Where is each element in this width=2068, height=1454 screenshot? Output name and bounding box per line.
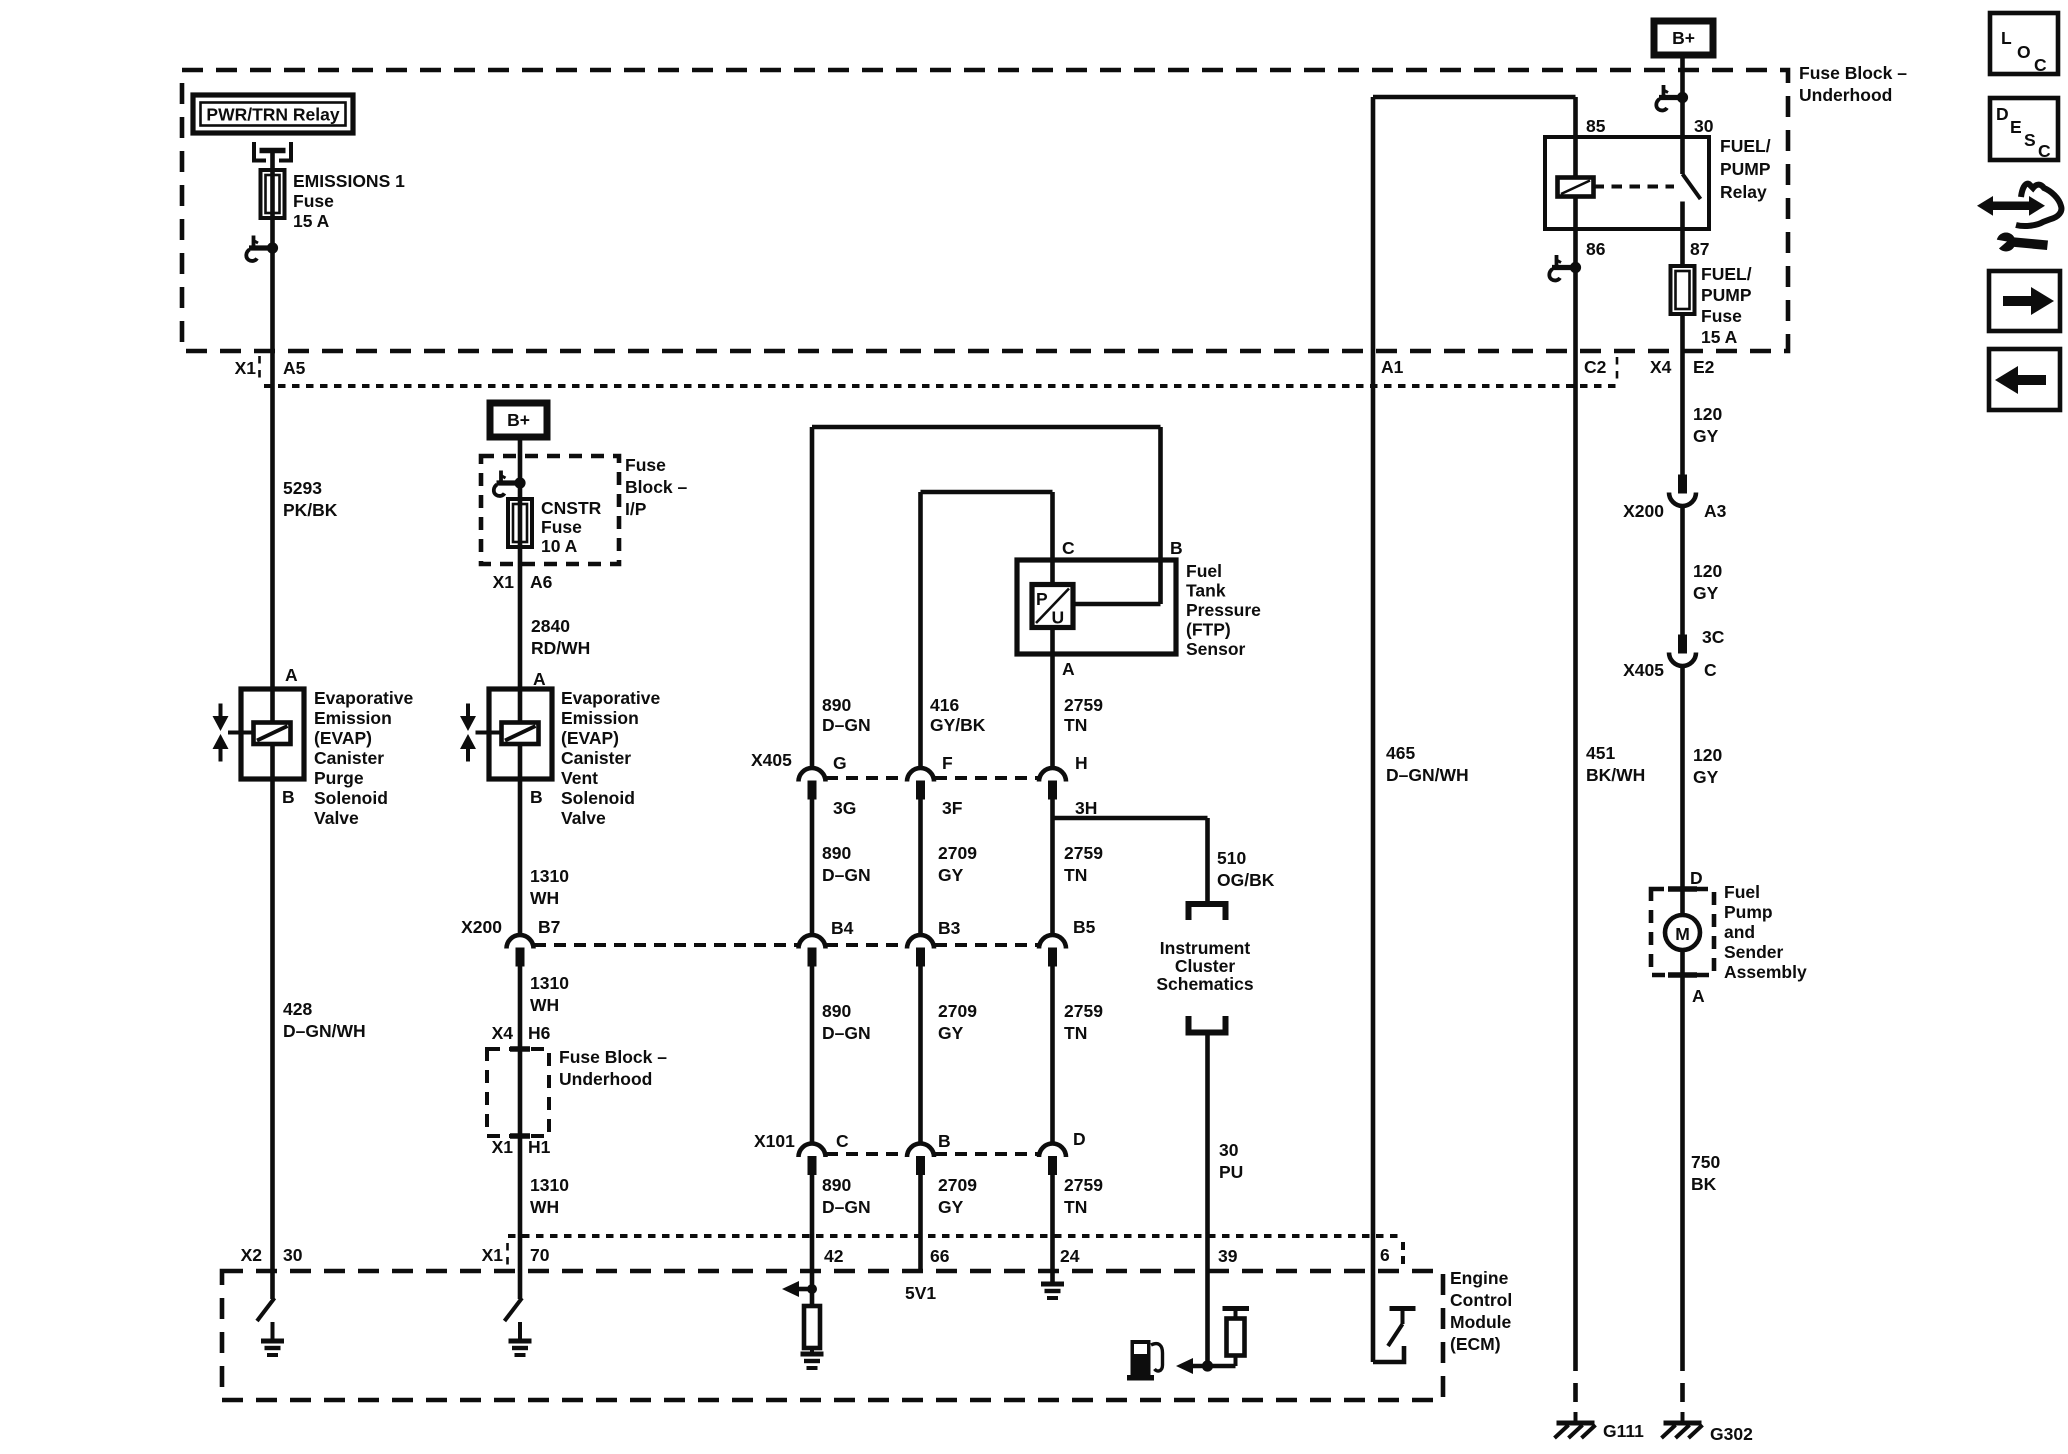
node B (vent solenoid pin B)	[530, 787, 543, 807]
svg-text:39: 39	[1218, 1246, 1238, 1266]
connector X200 pin B7 (arc + pin)	[507, 935, 534, 967]
svg-text:Evaporative: Evaporative	[561, 688, 660, 708]
svg-text:D–GN/WH: D–GN/WH	[283, 1021, 366, 1041]
ECM connector X2 pin 30 labels	[241, 1245, 303, 1265]
relay pin 30 label	[1694, 116, 1714, 136]
svg-text:C: C	[1704, 660, 1717, 680]
svg-text:Assembly: Assembly	[1724, 962, 1807, 982]
svg-text:GY: GY	[938, 1197, 964, 1217]
wire 1310 WH below X200	[518, 967, 523, 1300]
svg-text:Fuse Block –: Fuse Block –	[1799, 63, 1907, 83]
svg-text:L: L	[2001, 28, 2012, 48]
svg-text:Sender: Sender	[1724, 942, 1784, 962]
svg-text:30: 30	[283, 1245, 303, 1265]
svg-text:2709: 2709	[938, 843, 977, 863]
svg-text:M: M	[1675, 924, 1690, 944]
svg-text:D–GN: D–GN	[822, 715, 871, 735]
svg-text:CNSTR: CNSTR	[541, 498, 602, 518]
svg-text:2759: 2759	[1064, 843, 1103, 863]
relay pin 86 label	[1586, 239, 1606, 259]
EVAP canister vent solenoid valve	[460, 689, 552, 779]
connector plane dotted line	[264, 384, 1619, 388]
svg-text:3G: 3G	[833, 798, 856, 818]
svg-text:G: G	[833, 753, 847, 773]
svg-text:C: C	[2034, 55, 2047, 75]
svg-text:1310: 1310	[530, 1175, 569, 1195]
svg-text:PUMP: PUMP	[1701, 285, 1752, 305]
wire: PWR/TRN relay output to EVAP purge solenoid (5293 PK/BK)	[270, 148, 275, 1299]
svg-text:D–GN/WH: D–GN/WH	[1386, 765, 1469, 785]
svg-text:Fuse: Fuse	[1701, 306, 1742, 326]
svg-text:70: 70	[530, 1245, 550, 1265]
wire 451 dashed tail	[1573, 1352, 1578, 1410]
connector X1 pin A6 labels	[493, 572, 553, 592]
svg-text:X200: X200	[1623, 501, 1664, 521]
EVAP purge solenoid label	[314, 688, 413, 828]
svg-text:Instrument: Instrument	[1160, 938, 1251, 958]
wire relay pin 85 to ECM branch	[1373, 97, 1576, 178]
svg-text:TN: TN	[1064, 715, 1087, 735]
ECM label	[1450, 1268, 1512, 1354]
ECM pin 66 label	[930, 1246, 950, 1266]
ground (ECM internal, pin 42)	[801, 1348, 824, 1368]
ECM connector X1 pin 70 labels	[482, 1243, 550, 1266]
svg-text:Underhood: Underhood	[1799, 85, 1892, 105]
svg-text:465: 465	[1386, 743, 1415, 763]
wire: B+ through CNSTR fuse down to vent solenoid (2840 RD/WH)	[518, 437, 523, 936]
B+ node (battery feed, fuse block underhood)	[1654, 21, 1713, 55]
fuse block underhood dashed box	[182, 70, 1788, 351]
wire label 30 PU	[1219, 1140, 1243, 1182]
ECM dashed box	[222, 1271, 1443, 1400]
fuel pump assembly label	[1724, 882, 1807, 982]
fuel tank pressure sensor U1	[1017, 560, 1176, 654]
connector X200 dashed plane	[534, 943, 1038, 947]
connector X405 pin F	[907, 753, 963, 818]
connector X200 pin B3	[907, 918, 961, 967]
relay switch blade	[1683, 174, 1701, 199]
fuse block underhood pass-through label	[559, 1047, 667, 1089]
svg-text:X1: X1	[492, 1137, 514, 1157]
ECM pin 6 label	[1380, 1245, 1390, 1265]
connector X101 pin B	[907, 1131, 951, 1175]
svg-text:2759: 2759	[1064, 695, 1103, 715]
wire 2759 TN (X200 to X101)	[1050, 967, 1055, 1145]
svg-text:42: 42	[824, 1246, 844, 1266]
svg-text:3H: 3H	[1075, 798, 1097, 818]
svg-text:Emission: Emission	[314, 708, 392, 728]
ECM internal resistor (pin 39 pull-up)	[1223, 1309, 1250, 1367]
wire label 5293 PK/BK	[283, 478, 338, 520]
connector X101 pin D	[1039, 1129, 1086, 1175]
svg-text:416: 416	[930, 695, 959, 715]
FTP sensor label	[1186, 561, 1261, 659]
wire labels below X101	[822, 1175, 871, 1217]
svg-text:428: 428	[283, 999, 312, 1019]
svg-text:PUMP: PUMP	[1720, 159, 1771, 179]
svg-text:P: P	[1036, 589, 1048, 609]
relay pin 87 label	[1690, 239, 1709, 259]
svg-text:B+: B+	[507, 410, 530, 430]
ECM internal fuel level circuit: arrow to gauge	[1176, 1358, 1236, 1374]
connector X200 pin A3	[1623, 475, 1727, 522]
wire 2759 TN from FTP pin A	[1050, 628, 1055, 769]
wire 120 GY (fuse to X200 A3)	[1680, 314, 1685, 475]
ECM internal switch for vent solenoid	[505, 1298, 523, 1321]
connector X405 label	[751, 750, 792, 770]
svg-text:OG/BK: OG/BK	[1217, 870, 1275, 890]
ground (ECM internal, vent driver)	[509, 1322, 532, 1355]
svg-text:WH: WH	[530, 888, 559, 908]
wire label 120 GY (lower)	[1693, 745, 1722, 787]
EVAP canister purge solenoid valve	[213, 689, 305, 779]
svg-text:G111: G111	[1603, 1421, 1644, 1441]
svg-text:Tank: Tank	[1186, 581, 1226, 601]
svg-text:510: 510	[1217, 848, 1246, 868]
svg-text:Fuse: Fuse	[541, 517, 582, 537]
fuse block underhood label (top right)	[1799, 63, 1907, 105]
svg-text:TN: TN	[1064, 1197, 1087, 1217]
FTP pin C label	[1062, 538, 1075, 558]
svg-text:D–GN: D–GN	[822, 1023, 871, 1043]
svg-text:H1: H1	[528, 1137, 551, 1157]
svg-text:X1: X1	[482, 1245, 504, 1265]
svg-text:(FTP): (FTP)	[1186, 620, 1231, 640]
relay socket terminal cup	[254, 142, 291, 161]
svg-text:Fuse: Fuse	[293, 191, 334, 211]
FTP pin B label	[1170, 538, 1183, 558]
wire label 1310 WH (lower)	[530, 1175, 569, 1217]
svg-text:PU: PU	[1219, 1162, 1243, 1182]
svg-text:2709: 2709	[938, 1175, 977, 1195]
connector X4 pin H6 labels	[492, 1023, 551, 1043]
wire labels 890 D-GN / 416 GY/BK / 2759 TN (above X405)	[822, 695, 871, 735]
svg-text:Pump: Pump	[1724, 902, 1773, 922]
svg-text:85: 85	[1586, 116, 1606, 136]
svg-text:RD/WH: RD/WH	[531, 638, 590, 658]
wire 510 OG/BK branch to instrument cluster	[1053, 818, 1208, 902]
DESC icon	[1990, 98, 2058, 161]
svg-text:6: 6	[1380, 1245, 1390, 1265]
svg-text:C: C	[836, 1131, 849, 1151]
svg-text:U: U	[1052, 608, 1065, 628]
relay K1 FUEL/PUMP box	[1545, 137, 1709, 229]
svg-text:B+: B+	[1672, 28, 1695, 48]
svg-text:GY: GY	[938, 1023, 964, 1043]
EVAP vent solenoid label	[561, 688, 660, 828]
wire relay pin 87 to fuse	[1680, 202, 1685, 267]
svg-text:451: 451	[1586, 743, 1615, 763]
svg-text:A: A	[533, 669, 546, 689]
svg-text:1310: 1310	[530, 973, 569, 993]
ECM pin 6 notch separator	[1401, 1242, 1405, 1268]
svg-text:B3: B3	[938, 918, 961, 938]
svg-text:890: 890	[822, 695, 851, 715]
svg-text:O: O	[2017, 42, 2031, 62]
svg-text:EMISSIONS 1: EMISSIONS 1	[293, 171, 405, 191]
svg-text:A3: A3	[1704, 501, 1727, 521]
instrument cluster off-page bracket (top)	[1189, 904, 1226, 920]
svg-text:30: 30	[1694, 116, 1714, 136]
svg-text:X2: X2	[241, 1245, 263, 1265]
ground (ECM internal, pin 24)	[1041, 1271, 1064, 1298]
fuse clip terminal in I/P block	[494, 471, 526, 496]
svg-text:F: F	[942, 753, 953, 773]
svg-text:A: A	[285, 665, 298, 685]
connector X200 pin B5	[1039, 917, 1096, 967]
fuse F2 CNSTR 10A	[508, 499, 532, 547]
svg-text:PK/BK: PK/BK	[283, 500, 338, 520]
svg-text:120: 120	[1693, 561, 1722, 581]
svg-text:2759: 2759	[1064, 1001, 1103, 1021]
wire 750 BK to ground	[1680, 975, 1685, 1410]
svg-text:TN: TN	[1064, 1023, 1087, 1043]
wire label 2840 RD/WH	[531, 616, 590, 658]
wire 2759 TN (X101 to ECM pin 24)	[1050, 1175, 1055, 1284]
wire label 120 GY (middle)	[1693, 561, 1722, 603]
wire 120 GY (X200 to X405)	[1680, 506, 1685, 635]
svg-text:2759: 2759	[1064, 1175, 1103, 1195]
svg-text:Solenoid: Solenoid	[314, 788, 388, 808]
svg-text:WH: WH	[530, 995, 559, 1015]
FUEL/PUMP relay label	[1720, 136, 1771, 202]
svg-text:Fuse Block –: Fuse Block –	[559, 1047, 667, 1067]
svg-text:B: B	[530, 787, 543, 807]
svg-text:24: 24	[1060, 1246, 1080, 1266]
wire 30 PU from instrument cluster to ECM	[1205, 1033, 1210, 1367]
relay pin 85 label	[1586, 116, 1606, 136]
svg-text:5V1: 5V1	[905, 1283, 936, 1303]
svg-text:Sensor: Sensor	[1186, 639, 1246, 659]
wire 416 GY/BK (FTP pin C feed)	[918, 492, 923, 769]
svg-text:890: 890	[822, 1001, 851, 1021]
svg-text:WH: WH	[530, 1197, 559, 1217]
svg-text:BK: BK	[1691, 1174, 1717, 1194]
svg-text:B: B	[938, 1131, 951, 1151]
wire 465 D-GN/WH (relay coil control to ECM pin 6)	[1371, 97, 1376, 1362]
svg-text:(ECM): (ECM)	[1450, 1334, 1501, 1354]
ECM pin 42 label	[824, 1246, 844, 1266]
diagnostic wrench icon	[1977, 184, 2061, 252]
svg-text:Fuse: Fuse	[625, 455, 666, 475]
svg-text:and: and	[1724, 922, 1755, 942]
wire label 465 D-GN/WH	[1386, 743, 1469, 785]
svg-text:Fuel: Fuel	[1724, 882, 1760, 902]
svg-text:Underhood: Underhood	[559, 1069, 652, 1089]
svg-text:2840: 2840	[531, 616, 570, 636]
svg-text:A5: A5	[283, 358, 306, 378]
svg-text:(EVAP): (EVAP)	[314, 728, 372, 748]
svg-text:C: C	[2038, 141, 2051, 161]
svg-text:87: 87	[1690, 239, 1709, 259]
ECM internal signal arrow (pin 42)	[782, 1281, 817, 1297]
svg-text:Schematics: Schematics	[1156, 974, 1254, 994]
wire 120 GY (X405 to fuel pump)	[1680, 666, 1685, 889]
ECM internal switch (pin 6 driver)	[1373, 1309, 1416, 1363]
svg-text:Canister: Canister	[561, 748, 631, 768]
svg-text:A6: A6	[530, 572, 553, 592]
svg-text:B7: B7	[538, 917, 560, 937]
svg-text:FUEL/: FUEL/	[1720, 136, 1771, 156]
wire label 1310 WH (upper)	[530, 866, 569, 908]
svg-text:D–GN: D–GN	[822, 1197, 871, 1217]
svg-text:B4: B4	[831, 918, 854, 938]
FUEL/PUMP fuse label	[1701, 264, 1752, 347]
wire label 451 BK/WH	[1586, 743, 1645, 785]
svg-text:E2: E2	[1693, 357, 1715, 377]
fuel pump pin A label	[1692, 986, 1705, 1006]
fuse block I/P label	[625, 455, 688, 519]
5V1 net label	[905, 1283, 936, 1303]
ground G302	[1662, 1412, 1754, 1444]
svg-text:5293: 5293	[283, 478, 322, 498]
svg-text:3C: 3C	[1702, 627, 1725, 647]
wire relay pin 86 to C2 (451 BK/WH)	[1573, 197, 1578, 1353]
PWR/TRN Relay label box	[193, 95, 353, 133]
CNSTR fuse label	[541, 498, 602, 556]
node B (purge solenoid pin B)	[282, 787, 295, 807]
svg-text:30: 30	[1219, 1140, 1239, 1160]
connector X1 pin A5 labels	[235, 356, 306, 383]
svg-text:X1: X1	[493, 572, 515, 592]
fuel pump and sender assembly M1	[1651, 889, 1714, 975]
svg-text:Block –: Block –	[625, 477, 688, 497]
svg-text:15 A: 15 A	[1701, 327, 1738, 347]
node A (purge solenoid pin A)	[285, 665, 298, 685]
svg-text:15 A: 15 A	[293, 211, 330, 231]
EMISSIONS 1 fuse label	[293, 171, 405, 231]
svg-text:C: C	[1062, 538, 1075, 558]
fuse block I/P dashed box	[481, 456, 619, 564]
svg-text:3F: 3F	[942, 798, 963, 818]
wire 890 D-GN (X101 to ECM pin 42)	[810, 1175, 815, 1306]
back arrow icon	[1989, 349, 2060, 410]
connector X200 pin B7 labels	[461, 917, 560, 937]
svg-text:GY: GY	[1693, 583, 1719, 603]
svg-text:E: E	[2010, 117, 2022, 137]
svg-text:A: A	[1062, 659, 1075, 679]
B+ node (CNSTR feed)	[490, 403, 547, 437]
svg-text:Vent: Vent	[561, 768, 598, 788]
svg-text:Canister: Canister	[314, 748, 384, 768]
svg-text:66: 66	[930, 1246, 950, 1266]
ECM internal switch for purge solenoid	[257, 1298, 275, 1321]
svg-text:Engine: Engine	[1450, 1268, 1509, 1288]
svg-text:120: 120	[1693, 404, 1722, 424]
svg-text:10 A: 10 A	[541, 536, 578, 556]
wire label 750 BK	[1691, 1152, 1720, 1194]
svg-text:X101: X101	[754, 1131, 795, 1151]
svg-text:Relay: Relay	[1720, 182, 1767, 202]
ECM internal resistor (pin 42 pull)	[804, 1306, 820, 1348]
wire labels between X200 and X101	[822, 1001, 871, 1043]
ECM pin 24 label	[1060, 1246, 1080, 1266]
node A (vent solenoid pin A)	[533, 669, 546, 689]
ground G111	[1555, 1412, 1645, 1441]
svg-text:X405: X405	[751, 750, 792, 770]
svg-text:Module: Module	[1450, 1312, 1512, 1332]
instrument cluster label	[1156, 938, 1254, 994]
wire label 428 D-GN/WH	[283, 999, 366, 1041]
fuel pump pin D label	[1690, 868, 1703, 888]
svg-text:Valve: Valve	[314, 808, 359, 828]
fuse F3 FUEL/PUMP 15A	[1671, 266, 1695, 314]
fuse block underhood pass-through dashed box	[487, 1049, 549, 1136]
svg-text:FUEL/: FUEL/	[1701, 264, 1752, 284]
svg-text:G302: G302	[1710, 1424, 1753, 1444]
connector X405 dashed plane	[826, 776, 1038, 780]
svg-text:Emission: Emission	[561, 708, 639, 728]
svg-text:750: 750	[1691, 1152, 1720, 1172]
svg-text:H: H	[1075, 753, 1088, 773]
svg-text:A: A	[1692, 986, 1705, 1006]
svg-text:Solenoid: Solenoid	[561, 788, 635, 808]
svg-text:PWR/TRN Relay: PWR/TRN Relay	[206, 105, 339, 125]
wire 2709 GY (X200 to X101)	[918, 967, 923, 1145]
svg-text:S: S	[2024, 130, 2036, 150]
fuse F1 EMISSIONS 1 15A	[261, 170, 285, 218]
wire labels between X405 and X200	[822, 843, 871, 885]
svg-text:2709: 2709	[938, 1001, 977, 1021]
svg-text:86: 86	[1586, 239, 1606, 259]
relay coil	[1558, 178, 1594, 197]
svg-text:BK/WH: BK/WH	[1586, 765, 1645, 785]
wire 890 D-GN (X405 to X200)	[810, 800, 815, 936]
svg-text:GY: GY	[938, 865, 964, 885]
forward arrow icon	[1989, 271, 2060, 331]
wire 2709 GY (X405 to X200)	[918, 800, 923, 936]
svg-text:GY/BK: GY/BK	[930, 715, 986, 735]
wire label 120 GY (upper)	[1693, 404, 1722, 446]
svg-text:H6: H6	[528, 1023, 551, 1043]
wire: FTP pin C top run	[921, 492, 1053, 584]
svg-text:D: D	[1996, 104, 2009, 124]
svg-text:GY: GY	[1693, 426, 1719, 446]
svg-text:B5: B5	[1073, 917, 1096, 937]
svg-text:TN: TN	[1064, 865, 1087, 885]
connector X405 pin C	[1669, 635, 1696, 667]
fuse clip terminal on pin 86 wire	[1549, 255, 1581, 280]
wire 890 D-GN (FTP sensor B feed, left column)	[810, 427, 815, 769]
svg-text:(EVAP): (EVAP)	[561, 728, 619, 748]
svg-text:GY: GY	[1693, 767, 1719, 787]
svg-text:X4: X4	[1650, 357, 1672, 377]
connector X405 pin H	[1039, 753, 1097, 818]
wire 890 D-GN (X200 to X101)	[810, 967, 815, 1145]
connector X1 pin H1 labels	[492, 1137, 551, 1157]
svg-text:Evaporative: Evaporative	[314, 688, 413, 708]
svg-text:B: B	[1170, 538, 1183, 558]
connector X101 pin C	[799, 1131, 850, 1175]
svg-text:Purge: Purge	[314, 768, 364, 788]
FTP pin A label	[1062, 659, 1075, 679]
svg-text:X200: X200	[461, 917, 502, 937]
svg-text:X1: X1	[235, 358, 257, 378]
svg-text:X405: X405	[1623, 660, 1664, 680]
svg-text:C2: C2	[1584, 357, 1607, 377]
svg-text:Pressure: Pressure	[1186, 600, 1261, 620]
wire 2759 TN (X405 to X200)	[1050, 800, 1055, 936]
connector X405 pin C labels	[1623, 627, 1725, 680]
fuel gauge icon	[1127, 1340, 1163, 1381]
svg-text:120: 120	[1693, 745, 1722, 765]
connector X101 dashed plane	[826, 1152, 1038, 1156]
svg-text:D: D	[1073, 1129, 1086, 1149]
ECM pin 39 label	[1218, 1246, 1238, 1266]
svg-text:I/P: I/P	[625, 499, 647, 519]
fuse block exit labels A1 C2 X4 E2	[1381, 357, 1715, 382]
wire: FTP pin B top run	[812, 427, 1161, 604]
